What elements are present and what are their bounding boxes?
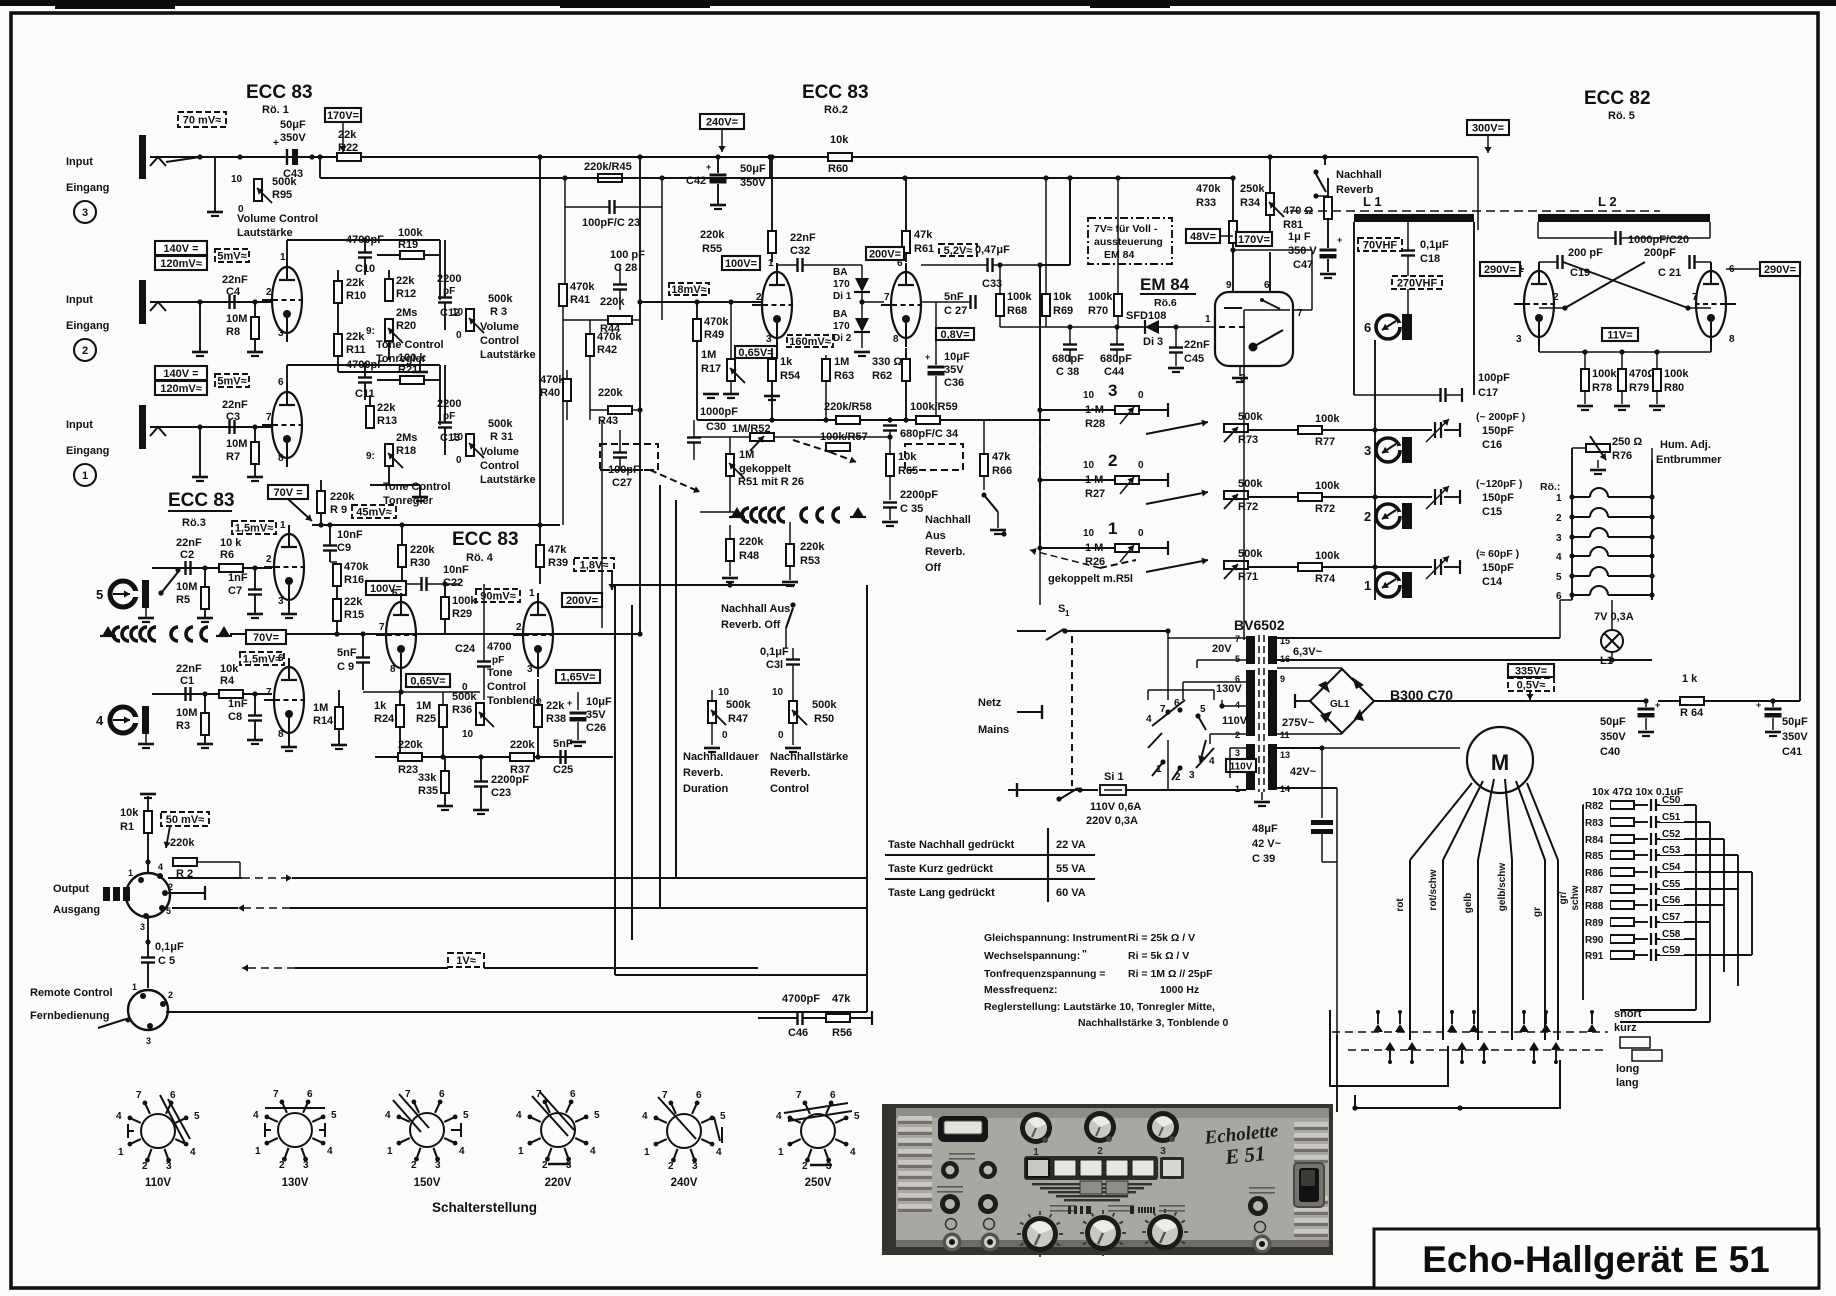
pot R18 2Ms tone1 — [385, 444, 393, 466]
svg-text:C32: C32 — [790, 245, 810, 257]
svg-text:SFD108: SFD108 — [1126, 310, 1166, 322]
svg-text:R72: R72 — [1315, 503, 1335, 515]
svg-text:2: 2 — [1556, 513, 1562, 524]
DIN remote socket — [128, 990, 168, 1030]
svg-text:Nachhall: Nachhall — [925, 514, 971, 526]
ladder outer box — [1582, 805, 1584, 955]
svg-text:C26: C26 — [586, 722, 606, 734]
svg-text:R62: R62 — [872, 370, 892, 382]
capacitor C9 10nF — [323, 544, 337, 546]
voltage boxes 140V 120mV ch1 — [155, 366, 207, 380]
svg-text:GL1: GL1 — [1330, 699, 1350, 710]
resistor R30 220k — [398, 545, 406, 567]
svg-text:470k: 470k — [1196, 183, 1221, 195]
svg-text:Lautstärke: Lautstärke — [237, 227, 293, 239]
tube EM84 envelope — [1215, 292, 1293, 366]
resistor R21 100k — [400, 376, 424, 384]
svg-text:Volume Control: Volume Control — [237, 213, 318, 225]
svg-text:8: 8 — [390, 664, 396, 675]
svg-text:ECC 83: ECC 83 — [452, 529, 519, 550]
svg-text:100 k: 100 k — [398, 352, 426, 364]
svg-text:Nachhallstärke: Nachhallstärke — [770, 751, 848, 763]
svg-text:R63: R63 — [834, 370, 854, 382]
svg-text:2: 2 — [542, 1160, 548, 1171]
voltage box 70V lower — [246, 630, 286, 644]
svg-text:Rö. 5: Rö. 5 — [1608, 110, 1635, 122]
svg-text:3: 3 — [692, 1161, 698, 1172]
resistor R35 33k — [441, 771, 449, 793]
svg-text:150V: 150V — [414, 1177, 441, 1189]
bank contact 2 — [1395, 1024, 1405, 1032]
svg-text:BA: BA — [833, 267, 847, 278]
trimmer C16 — [1434, 422, 1436, 438]
svg-text:Reglerstellung: Lautstärke 10,: Reglerstellung: Lautstärke 10, Tonregler… — [984, 1001, 1215, 1013]
capacitor C10 4700pF — [358, 251, 372, 253]
svg-text:4: 4 — [1556, 552, 1562, 563]
svg-text:ECC 82: ECC 82 — [1584, 88, 1651, 109]
resistor R43 220k — [608, 406, 632, 414]
capacitor C2 22nF — [184, 561, 186, 575]
svg-text:C3: C3 — [226, 411, 240, 423]
svg-text:470k: 470k — [540, 374, 565, 386]
voltage box 200V ro2 — [866, 247, 904, 260]
svg-text:3: 3 — [826, 1161, 832, 1172]
svg-text:22k: 22k — [396, 275, 415, 287]
svg-text:R 9: R 9 — [330, 504, 347, 516]
capacitor C12 2200pF — [438, 296, 452, 298]
svg-text:Di 3: Di 3 — [1143, 336, 1163, 348]
svg-text:5: 5 — [331, 1110, 337, 1121]
resistor R48 220k — [726, 539, 734, 561]
capacitor C41 50uF — [1765, 708, 1782, 711]
svg-text:R8: R8 — [226, 326, 240, 338]
svg-text:R80: R80 — [1664, 382, 1684, 394]
svg-text:1: 1 — [644, 1147, 650, 1158]
transformer secondary windings — [1268, 636, 1277, 664]
bank contact 7 — [1587, 1024, 1597, 1032]
RC row R89 C57 — [1583, 921, 1610, 923]
svg-text:2200: 2200 — [437, 398, 461, 410]
svg-text:Netz: Netz — [978, 697, 1002, 709]
capacitor C33 0.47uF — [986, 258, 988, 272]
resistor R81 470 — [1324, 197, 1332, 219]
svg-text:2: 2 — [1364, 509, 1371, 524]
svg-text:2: 2 — [82, 345, 88, 357]
svg-text:3: 3 — [278, 328, 284, 339]
svg-text:470k: 470k — [704, 316, 729, 328]
colour wires vertical — [1409, 860, 1411, 1040]
reverb off switch mid — [981, 492, 986, 497]
svg-text:140V =: 140V = — [163, 368, 198, 380]
pot R47 500k — [708, 701, 716, 723]
bank frame B — [1355, 1060, 1560, 1108]
svg-text:C58: C58 — [1662, 929, 1681, 940]
svg-text:C41: C41 — [1782, 746, 1802, 758]
svg-text:Rö. 4: Rö. 4 — [466, 552, 494, 564]
wire primary taps — [1168, 637, 1246, 639]
svg-text:1M: 1M — [701, 349, 716, 361]
svg-text:10: 10 — [1083, 460, 1095, 471]
measure box 5mV ch1 — [215, 374, 249, 387]
svg-text:22nF: 22nF — [176, 663, 202, 675]
wire rail2 riser — [769, 157, 771, 178]
svg-text:70V=: 70V= — [253, 632, 279, 644]
svg-text:0,65V=: 0,65V= — [410, 676, 445, 688]
svg-text:18mV≈: 18mV≈ — [671, 284, 706, 296]
RC row R90 C58 — [1583, 938, 1610, 940]
cross coupling wires — [1563, 262, 1688, 308]
svg-text:R89: R89 — [1585, 918, 1604, 929]
svg-text:500k: 500k — [1238, 478, 1263, 490]
wire input1 row — [150, 426, 272, 428]
svg-text:Mains: Mains — [978, 724, 1009, 736]
svg-text:500k: 500k — [1238, 548, 1263, 560]
svg-text:1,5mV≈: 1,5mV≈ — [243, 654, 281, 666]
svg-text:10k: 10k — [898, 451, 917, 463]
svg-text:C2: C2 — [180, 549, 194, 561]
svg-text:C50: C50 — [1662, 795, 1681, 806]
triode ECC82a — [1524, 271, 1554, 337]
capacitor C18 0.1uF — [1401, 249, 1415, 251]
svg-text:C27: C27 — [612, 477, 632, 489]
svg-text:R91: R91 — [1585, 951, 1604, 962]
svg-text:R40: R40 — [540, 387, 560, 399]
pot row R26 1 M — [1040, 547, 1115, 549]
svg-text:1: 1 — [82, 470, 88, 482]
pot R52 1M — [750, 433, 774, 441]
svg-text:5nF: 5nF — [944, 291, 964, 303]
wire reverb loop v2 — [631, 605, 633, 940]
svg-text:22k: 22k — [377, 402, 396, 414]
wire input2 row — [150, 301, 272, 303]
svg-text:470k: 470k — [344, 561, 369, 573]
svg-text:R43: R43 — [598, 415, 618, 427]
svg-text:short: short — [1614, 1008, 1642, 1020]
svg-text:1 M: 1 M — [1085, 474, 1103, 486]
svg-text:4: 4 — [716, 1147, 722, 1158]
svg-text:2: 2 — [1108, 451, 1117, 470]
svg-text:R95: R95 — [272, 189, 292, 201]
svg-text:1M: 1M — [313, 702, 328, 714]
triode Ro4a — [386, 602, 416, 668]
svg-text:4: 4 — [459, 1146, 465, 1157]
svg-text:1000 Hz: 1000 Hz — [1160, 984, 1199, 996]
svg-text:47k: 47k — [992, 451, 1011, 463]
svg-text:1: 1 — [1108, 519, 1117, 538]
svg-text:10nF: 10nF — [443, 564, 469, 576]
svg-text:C30: C30 — [706, 421, 726, 433]
triode Ro2b — [891, 272, 921, 338]
svg-text:Echo-Hallgerät E 51: Echo-Hallgerät E 51 — [1422, 1239, 1770, 1280]
svg-text:170: 170 — [833, 279, 850, 290]
svg-text:Reverb.: Reverb. — [683, 767, 723, 779]
svg-text:6: 6 — [830, 1090, 836, 1101]
svg-text:100k: 100k — [1088, 291, 1113, 303]
DIN pin2 stub — [168, 892, 205, 894]
svg-text:R61: R61 — [914, 243, 934, 255]
svg-text:5: 5 — [166, 906, 171, 916]
svg-text:R88: R88 — [1585, 901, 1604, 912]
wire cathode bus ro2 — [697, 419, 1050, 421]
svg-text:gr/: gr/ — [1558, 891, 1569, 904]
svg-text:EM 84: EM 84 — [1104, 249, 1135, 261]
svg-text:C55: C55 — [1662, 879, 1681, 890]
svg-text:4: 4 — [516, 1110, 522, 1121]
svg-text:1 M: 1 M — [1085, 542, 1103, 554]
capacitor C21 200pF — [1688, 255, 1690, 269]
spring line lower — [731, 507, 743, 517]
svg-text:Tone: Tone — [487, 667, 512, 679]
resistor R53 220k — [786, 544, 794, 566]
right row R73 R77 — [1224, 424, 1248, 432]
svg-text:5: 5 — [96, 587, 103, 602]
svg-text:16: 16 — [1280, 654, 1290, 664]
svg-text:R4: R4 — [220, 675, 235, 687]
capacitor C44 680pF — [1110, 343, 1124, 345]
svg-text:250V: 250V — [805, 1177, 832, 1189]
capacitor C45 22nF — [1169, 346, 1183, 348]
capacitor C1 22nF — [184, 687, 186, 701]
svg-text:10M: 10M — [176, 581, 197, 593]
triode Ro1a — [272, 267, 302, 333]
svg-text:3: 3 — [766, 334, 772, 345]
measure box 5p2V — [939, 244, 977, 256]
svg-text:Lautstärke: Lautstärke — [480, 349, 536, 361]
capacitor C5 0.1uF — [141, 956, 155, 958]
measure box 270VHF — [1392, 276, 1442, 289]
svg-text:200pF: 200pF — [1644, 247, 1676, 259]
svg-text:150pF: 150pF — [1482, 425, 1514, 437]
label long lang — [1632, 1050, 1662, 1061]
svg-text:2: 2 — [802, 1161, 808, 1172]
svg-text:5nF: 5nF — [553, 738, 573, 750]
wire out row2 — [238, 907, 290, 909]
resistor R29 100k — [441, 597, 449, 619]
svg-text:48V=: 48V= — [1190, 231, 1216, 243]
svg-text:2: 2 — [168, 882, 173, 892]
bank contact low 6 — [1551, 1042, 1561, 1050]
resistor R62 330ohm — [902, 359, 910, 381]
wire 170V arrow — [342, 122, 344, 152]
svg-text:7: 7 — [379, 622, 385, 633]
svg-text:50μF: 50μF — [740, 163, 766, 175]
svg-text:10k: 10k — [1053, 291, 1072, 303]
svg-text:R82: R82 — [1585, 801, 1604, 812]
svg-text:Input: Input — [66, 419, 93, 431]
svg-text:R53: R53 — [800, 555, 820, 567]
capacitor C23b 100pF — [608, 200, 610, 214]
svg-text:1M: 1M — [739, 449, 754, 461]
svg-text:R90: R90 — [1585, 935, 1604, 946]
svg-text:C23: C23 — [491, 787, 511, 799]
wire reverb loop v3 — [659, 485, 661, 908]
svg-text:350 V: 350 V — [1288, 245, 1317, 257]
svg-text:250 Ω: 250 Ω — [1612, 436, 1642, 448]
svg-text:ECC 83: ECC 83 — [246, 82, 313, 103]
bank contact low 2 — [1407, 1042, 1417, 1050]
svg-text:1: 1 — [255, 1146, 261, 1157]
resistor R8 10M — [251, 317, 259, 339]
svg-text:22 VA: 22 VA — [1056, 839, 1086, 851]
svg-text:2: 2 — [668, 1161, 674, 1172]
svg-text:50μF: 50μF — [280, 119, 306, 131]
svg-text:100V=: 100V= — [725, 258, 757, 270]
svg-text:2200pF: 2200pF — [900, 489, 938, 501]
wire ro4 ground bus — [375, 756, 613, 758]
voltage box 335V — [1508, 664, 1554, 677]
wire reverb loop v4 — [675, 500, 677, 878]
svg-text:200V=: 200V= — [869, 249, 901, 261]
wire grid em84 — [1000, 326, 1209, 328]
resistor R33 470k — [1229, 221, 1237, 243]
svg-text:290V=: 290V= — [1484, 264, 1516, 276]
resistor R15 22k — [333, 599, 341, 621]
capacitor C22 10nF — [420, 577, 422, 591]
wire top bus right — [1070, 156, 1325, 158]
svg-text:C33: C33 — [982, 278, 1002, 290]
svg-text:Gleichspannung: Instrument: Gleichspannung: Instrument — [984, 932, 1127, 944]
svg-text:Volume: Volume — [480, 446, 519, 458]
svg-text:4: 4 — [642, 1111, 648, 1122]
pot row R28 1·M — [1040, 409, 1115, 411]
pot row R27 1 M — [1040, 479, 1115, 481]
svg-text:3: 3 — [1108, 381, 1117, 400]
svg-text:1 k: 1 k — [1682, 673, 1698, 685]
svg-text:Control: Control — [480, 460, 519, 472]
svg-text:60 VA: 60 VA — [1056, 887, 1086, 899]
svg-text:7: 7 — [405, 1089, 411, 1100]
svg-text:R7: R7 — [226, 451, 240, 463]
resistor R19 100k — [400, 251, 424, 259]
svg-text:C3l: C3l — [766, 659, 783, 671]
svg-text:gelb/schw: gelb/schw — [1497, 863, 1508, 912]
svg-text:+: + — [567, 698, 572, 708]
svg-text:240V=: 240V= — [706, 117, 738, 129]
resistor R22 22k — [337, 153, 361, 161]
svg-text:350V: 350V — [280, 132, 306, 144]
svg-text:5: 5 — [463, 1110, 469, 1121]
svg-text:1: 1 — [778, 1147, 784, 1158]
svg-text:100k: 100k — [1315, 550, 1340, 562]
selector frame — [1147, 690, 1149, 700]
measure box 90mV — [476, 589, 520, 602]
svg-text:kurz: kurz — [1614, 1022, 1637, 1034]
svg-text:2: 2 — [142, 1161, 148, 1172]
rotary switch 250V — [801, 1114, 835, 1148]
resistor R4 10k — [219, 690, 243, 698]
wire 42V to C39 — [1277, 747, 1322, 749]
svg-text:2: 2 — [1097, 1146, 1103, 1157]
wire trunk x563 — [562, 300, 564, 525]
svg-text:9: 9 — [1280, 674, 1285, 684]
svg-text:170V=: 170V= — [327, 110, 359, 122]
svg-text:5: 5 — [854, 1111, 860, 1122]
transformer core dashes — [1258, 635, 1260, 792]
svg-text:470k: 470k — [597, 331, 622, 343]
measure box 18mV — [669, 283, 709, 295]
capacitor C8 1nF — [248, 714, 262, 716]
svg-text:C18: C18 — [1420, 253, 1440, 265]
bank drops — [1409, 1012, 1411, 1040]
pot R51 1M — [726, 454, 734, 476]
voltage box 100V — [366, 581, 406, 595]
resistor R55 220k — [768, 231, 776, 253]
svg-text:C51: C51 — [1662, 812, 1681, 823]
svg-text:C45: C45 — [1184, 353, 1204, 365]
svg-text:100k: 100k — [1315, 480, 1340, 492]
svg-text:10M: 10M — [176, 707, 197, 719]
wire pots left trunk — [1039, 410, 1041, 548]
svg-text:R3: R3 — [176, 720, 190, 732]
svg-text:140V =: 140V = — [163, 243, 198, 255]
svg-text:R68: R68 — [1007, 305, 1027, 317]
resistor R23 220k — [398, 753, 422, 761]
capacitor C35 2200pF — [883, 501, 897, 503]
svg-text:6: 6 — [1364, 320, 1371, 335]
svg-text:1: 1 — [118, 1147, 124, 1158]
resistor R61 47k — [902, 231, 910, 253]
wire grid row ro2a — [640, 301, 762, 303]
svg-text:R50: R50 — [814, 713, 834, 725]
svg-text:14: 14 — [1280, 784, 1290, 794]
svg-text:100pF/C 23: 100pF/C 23 — [582, 217, 640, 229]
svg-text:Di 2: Di 2 — [833, 333, 852, 344]
svg-text:R39: R39 — [548, 557, 568, 569]
ground ch2 jack — [192, 351, 208, 354]
svg-text:R77: R77 — [1315, 436, 1335, 448]
svg-text:6: 6 — [170, 1090, 176, 1101]
svg-text:10: 10 — [231, 174, 243, 185]
svg-text:0: 0 — [722, 730, 728, 741]
svg-text:C59: C59 — [1662, 945, 1681, 956]
spring line upper — [102, 626, 114, 636]
RC row R88 C56 — [1583, 904, 1610, 906]
svg-text:R47: R47 — [728, 713, 748, 725]
resistor R64 1k — [1680, 697, 1704, 705]
svg-text:1,8V≈: 1,8V≈ — [580, 560, 609, 572]
svg-text:R73: R73 — [1238, 434, 1258, 446]
svg-text:1k: 1k — [780, 356, 793, 368]
resistor R42 470k — [586, 334, 594, 356]
svg-text:290V=: 290V= — [1764, 264, 1796, 276]
svg-text:10: 10 — [452, 432, 464, 443]
RC row R86 C54 — [1583, 871, 1610, 873]
svg-text:3: 3 — [82, 207, 88, 219]
voltage box 240V — [700, 114, 744, 129]
bank dashed bars — [1332, 1031, 1608, 1033]
pot R17 1M — [727, 359, 735, 381]
svg-text:6: 6 — [392, 588, 398, 599]
svg-text:170V=: 170V= — [1238, 234, 1270, 246]
svg-text:8: 8 — [278, 729, 284, 740]
svg-text:680pF: 680pF — [1100, 353, 1132, 365]
svg-text:470k: 470k — [570, 281, 595, 293]
bank contact 4 — [1469, 1024, 1479, 1032]
svg-text:270VHF: 270VHF — [1397, 278, 1438, 290]
svg-text:C47: C47 — [1293, 259, 1313, 271]
svg-text:R11: R11 — [346, 344, 366, 356]
svg-text:330 Ω: 330 Ω — [872, 356, 902, 368]
svg-text:Nachhallstärke 3, Tonblende 0: Nachhallstärke 3, Tonblende 0 — [1078, 1017, 1229, 1029]
svg-text:Aus: Aus — [925, 530, 946, 542]
svg-text:gekoppelt m.R5l: gekoppelt m.R5l — [1048, 573, 1133, 585]
svg-text:100k: 100k — [1315, 413, 1340, 425]
svg-text:C56: C56 — [1662, 895, 1681, 906]
svg-text:120mV≈: 120mV≈ — [160, 383, 202, 395]
wire reverb loop v1 — [614, 585, 616, 975]
bank contact low 1 — [1385, 1042, 1395, 1050]
svg-text:220k: 220k — [410, 544, 435, 556]
